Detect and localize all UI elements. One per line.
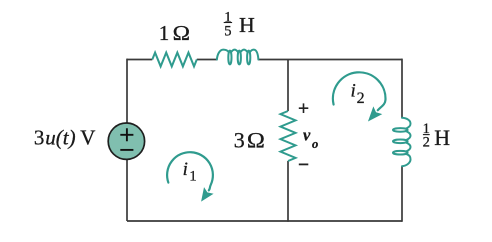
wire: middle branch bottom — [287, 161, 289, 222]
minus sign of vo — [299, 163, 309, 165]
resistor R1 1-ohm (top) — [152, 53, 197, 67]
wire: top-left segment — [127, 59, 152, 61]
mesh current i1 arc — [167, 152, 213, 190]
wire: bottom rail — [127, 220, 402, 222]
svg-text:H: H — [434, 125, 450, 150]
svg-text:Ω: Ω — [173, 21, 190, 45]
svg-text:2: 2 — [423, 134, 430, 150]
svg-text:1: 1 — [189, 169, 197, 185]
source plus sign — [120, 128, 133, 141]
svg-text:H: H — [239, 13, 255, 37]
wire: left branch upper — [126, 59, 128, 123]
svg-text:i: i — [183, 159, 188, 180]
wire: left branch lower — [126, 159, 128, 221]
svg-text:3: 3 — [234, 128, 245, 153]
svg-text:3: 3 — [34, 125, 45, 149]
svg-text:1: 1 — [159, 21, 170, 45]
wire: right branch top — [401, 59, 403, 118]
voltage source Vs circle — [108, 123, 144, 159]
svg-text:5: 5 — [224, 24, 231, 40]
mesh current i2 arc — [333, 72, 386, 110]
resistor R2 3-ohm (middle) — [281, 111, 296, 161]
svg-text:u(t): u(t) — [45, 125, 75, 149]
svg-text:V: V — [80, 125, 95, 149]
mesh current i2 arrowhead — [368, 106, 382, 121]
source minus sign — [120, 149, 133, 151]
inductor L1 1/5 H (top) — [217, 50, 259, 60]
plus sign of vo — [299, 103, 309, 113]
svg-text:o: o — [312, 137, 318, 151]
wire: top-right segment with node at middle branch — [258, 59, 402, 61]
wire: middle branch top — [287, 60, 289, 112]
inductor L2 1/2 H (right) — [402, 118, 411, 166]
mesh current i1 arrowhead — [201, 187, 213, 202]
wire: between 1-ohm resistor and inductor — [197, 59, 217, 61]
svg-text:v: v — [303, 126, 311, 145]
wire: right branch bottom — [401, 166, 403, 222]
svg-text:2: 2 — [357, 90, 365, 107]
svg-text:Ω: Ω — [247, 128, 265, 153]
svg-text:i: i — [351, 81, 356, 102]
